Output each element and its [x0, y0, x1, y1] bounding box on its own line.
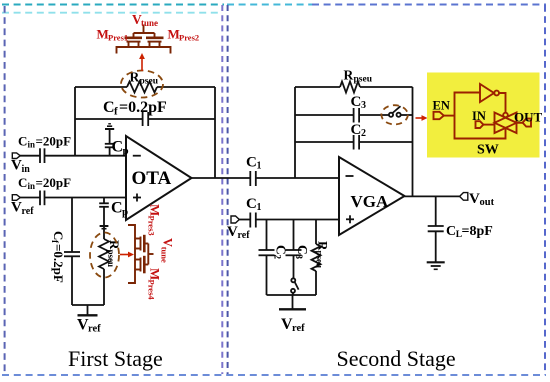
svg-text:ref: ref: [22, 206, 35, 217]
svg-text:Pres4: Pres4: [147, 280, 157, 301]
svg-text:Pres2: Pres2: [179, 33, 199, 43]
svg-text:V: V: [11, 200, 22, 216]
svg-text:SW: SW: [477, 143, 499, 158]
svg-text:R: R: [316, 241, 331, 251]
svg-text:R: R: [107, 240, 122, 250]
svg-text:f: f: [114, 106, 118, 118]
svg-text:out: out: [480, 197, 495, 208]
svg-text:C: C: [351, 94, 362, 110]
svg-text:C: C: [112, 139, 124, 156]
svg-text:in: in: [28, 181, 36, 191]
svg-text:tune: tune: [141, 18, 158, 28]
svg-text:C: C: [295, 245, 310, 255]
svg-text:ref: ref: [292, 323, 305, 334]
svg-text:M: M: [148, 268, 163, 280]
svg-text:C: C: [446, 224, 456, 239]
svg-text:IN: IN: [472, 109, 486, 123]
svg-text:V: V: [469, 191, 480, 207]
svg-text:pseu: pseu: [315, 251, 325, 269]
svg-text:p: p: [122, 206, 128, 218]
svg-text:C: C: [18, 134, 27, 149]
svg-text:pseu: pseu: [140, 77, 159, 87]
svg-text:=20pF: =20pF: [36, 134, 72, 149]
svg-text:C: C: [274, 245, 289, 255]
svg-text:in: in: [28, 140, 36, 150]
svg-text:OTA: OTA: [132, 168, 172, 189]
svg-text:1: 1: [257, 161, 262, 172]
svg-text:Pres1: Pres1: [108, 33, 128, 43]
svg-text:C: C: [111, 200, 123, 217]
svg-text:1: 1: [257, 202, 262, 213]
svg-text:Pres3: Pres3: [147, 216, 157, 236]
svg-text:C: C: [351, 122, 362, 138]
svg-text:OUT: OUT: [514, 110, 543, 125]
svg-text:C: C: [246, 196, 257, 212]
svg-text:ref: ref: [88, 324, 101, 335]
svg-text:First Stage: First Stage: [68, 346, 163, 371]
svg-text:=20pF: =20pF: [36, 175, 72, 190]
svg-text:VGA: VGA: [351, 192, 390, 211]
svg-text:M: M: [97, 27, 109, 42]
svg-text:2: 2: [273, 255, 283, 260]
svg-text:=0.2pF: =0.2pF: [51, 244, 66, 283]
svg-text:C: C: [18, 175, 27, 190]
svg-text:pseu: pseu: [106, 250, 116, 268]
svg-text:=8pF: =8pF: [462, 224, 493, 239]
svg-text:pseu: pseu: [354, 75, 373, 85]
svg-text:in: in: [22, 164, 31, 175]
svg-text:V: V: [227, 224, 238, 240]
svg-text:=0.2pF: =0.2pF: [119, 99, 167, 116]
svg-text:C: C: [51, 231, 66, 240]
svg-text:Second Stage: Second Stage: [337, 346, 456, 371]
svg-text:2: 2: [361, 128, 366, 139]
svg-text:M: M: [168, 27, 180, 42]
svg-text:EN: EN: [433, 99, 450, 113]
svg-text:C: C: [246, 155, 257, 171]
svg-text:V: V: [11, 158, 22, 174]
svg-text:3: 3: [361, 100, 366, 111]
svg-text:3: 3: [294, 255, 304, 260]
svg-text:ref: ref: [238, 230, 251, 241]
svg-text:R: R: [344, 68, 354, 83]
svg-text:tune: tune: [160, 247, 170, 263]
svg-text:M: M: [148, 204, 163, 216]
svg-text:V: V: [161, 238, 175, 247]
svg-text:C: C: [103, 99, 115, 116]
svg-text:p: p: [123, 145, 129, 157]
